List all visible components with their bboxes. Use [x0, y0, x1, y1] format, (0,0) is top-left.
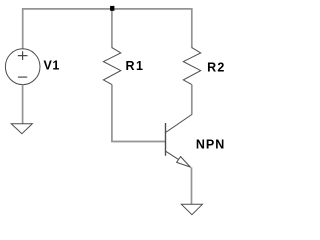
wire R2 bottom to collector corner — [191, 85, 193, 115]
node junction dot at top rail / R1 branch — [110, 6, 114, 11]
wire R1 bottom to transistor base — [112, 85, 165, 142]
transistor Q1 collector diagonal — [166, 115, 192, 133]
transistor Q1 emitter diagonal — [166, 151, 191, 167]
resistor R2 zigzag — [183, 48, 200, 85]
wire R2 top (top rail to R2) — [191, 8, 193, 48]
wire top horizontal rail — [22, 8, 193, 10]
svg-text:R1: R1 — [126, 59, 145, 73]
transistor Q1 emitter arrowhead — [177, 157, 191, 167]
voltage source V1 circle — [5, 49, 40, 85]
V1 plus sign — [18, 51, 28, 60]
ground under emitter — [181, 204, 202, 214]
wire emitter to ground — [191, 167, 193, 204]
resistor R1 zigzag — [103, 48, 120, 85]
V1 minus sign — [18, 76, 27, 78]
wire V1 minus terminal to ground — [22, 85, 24, 124]
svg-text:NPN: NPN — [196, 138, 225, 152]
svg-text:V1: V1 — [44, 59, 60, 73]
wire left vertical (top rail to V1 plus terminal) — [22, 8, 24, 49]
wire R1 top (top rail to R1) — [111, 9, 113, 48]
ground under V1 — [11, 124, 32, 134]
transistor Q1 base bar — [165, 123, 167, 156]
svg-text:R2: R2 — [207, 60, 226, 74]
